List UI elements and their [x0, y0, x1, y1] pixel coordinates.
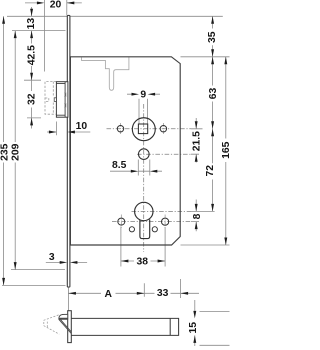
svg-text:13: 13: [26, 18, 37, 30]
svg-text:209: 209: [11, 143, 22, 161]
svg-text:3: 3: [49, 252, 55, 263]
svg-text:8.5: 8.5: [112, 160, 127, 171]
svg-text:32: 32: [26, 93, 37, 105]
svg-text:235: 235: [0, 143, 11, 161]
svg-text:9: 9: [140, 89, 146, 100]
svg-text:A: A: [104, 289, 112, 300]
svg-text:8: 8: [192, 213, 203, 219]
svg-text:15: 15: [188, 322, 199, 334]
svg-text:21.5: 21.5: [192, 131, 203, 151]
svg-text:35: 35: [207, 31, 218, 43]
svg-text:72: 72: [205, 165, 216, 177]
svg-text:33: 33: [157, 288, 169, 299]
svg-text:165: 165: [221, 141, 230, 159]
svg-text:63: 63: [208, 88, 219, 100]
svg-text:42.5: 42.5: [27, 45, 38, 65]
svg-text:20: 20: [50, 0, 62, 10]
svg-text:10: 10: [76, 121, 88, 132]
svg-text:38: 38: [136, 257, 148, 268]
